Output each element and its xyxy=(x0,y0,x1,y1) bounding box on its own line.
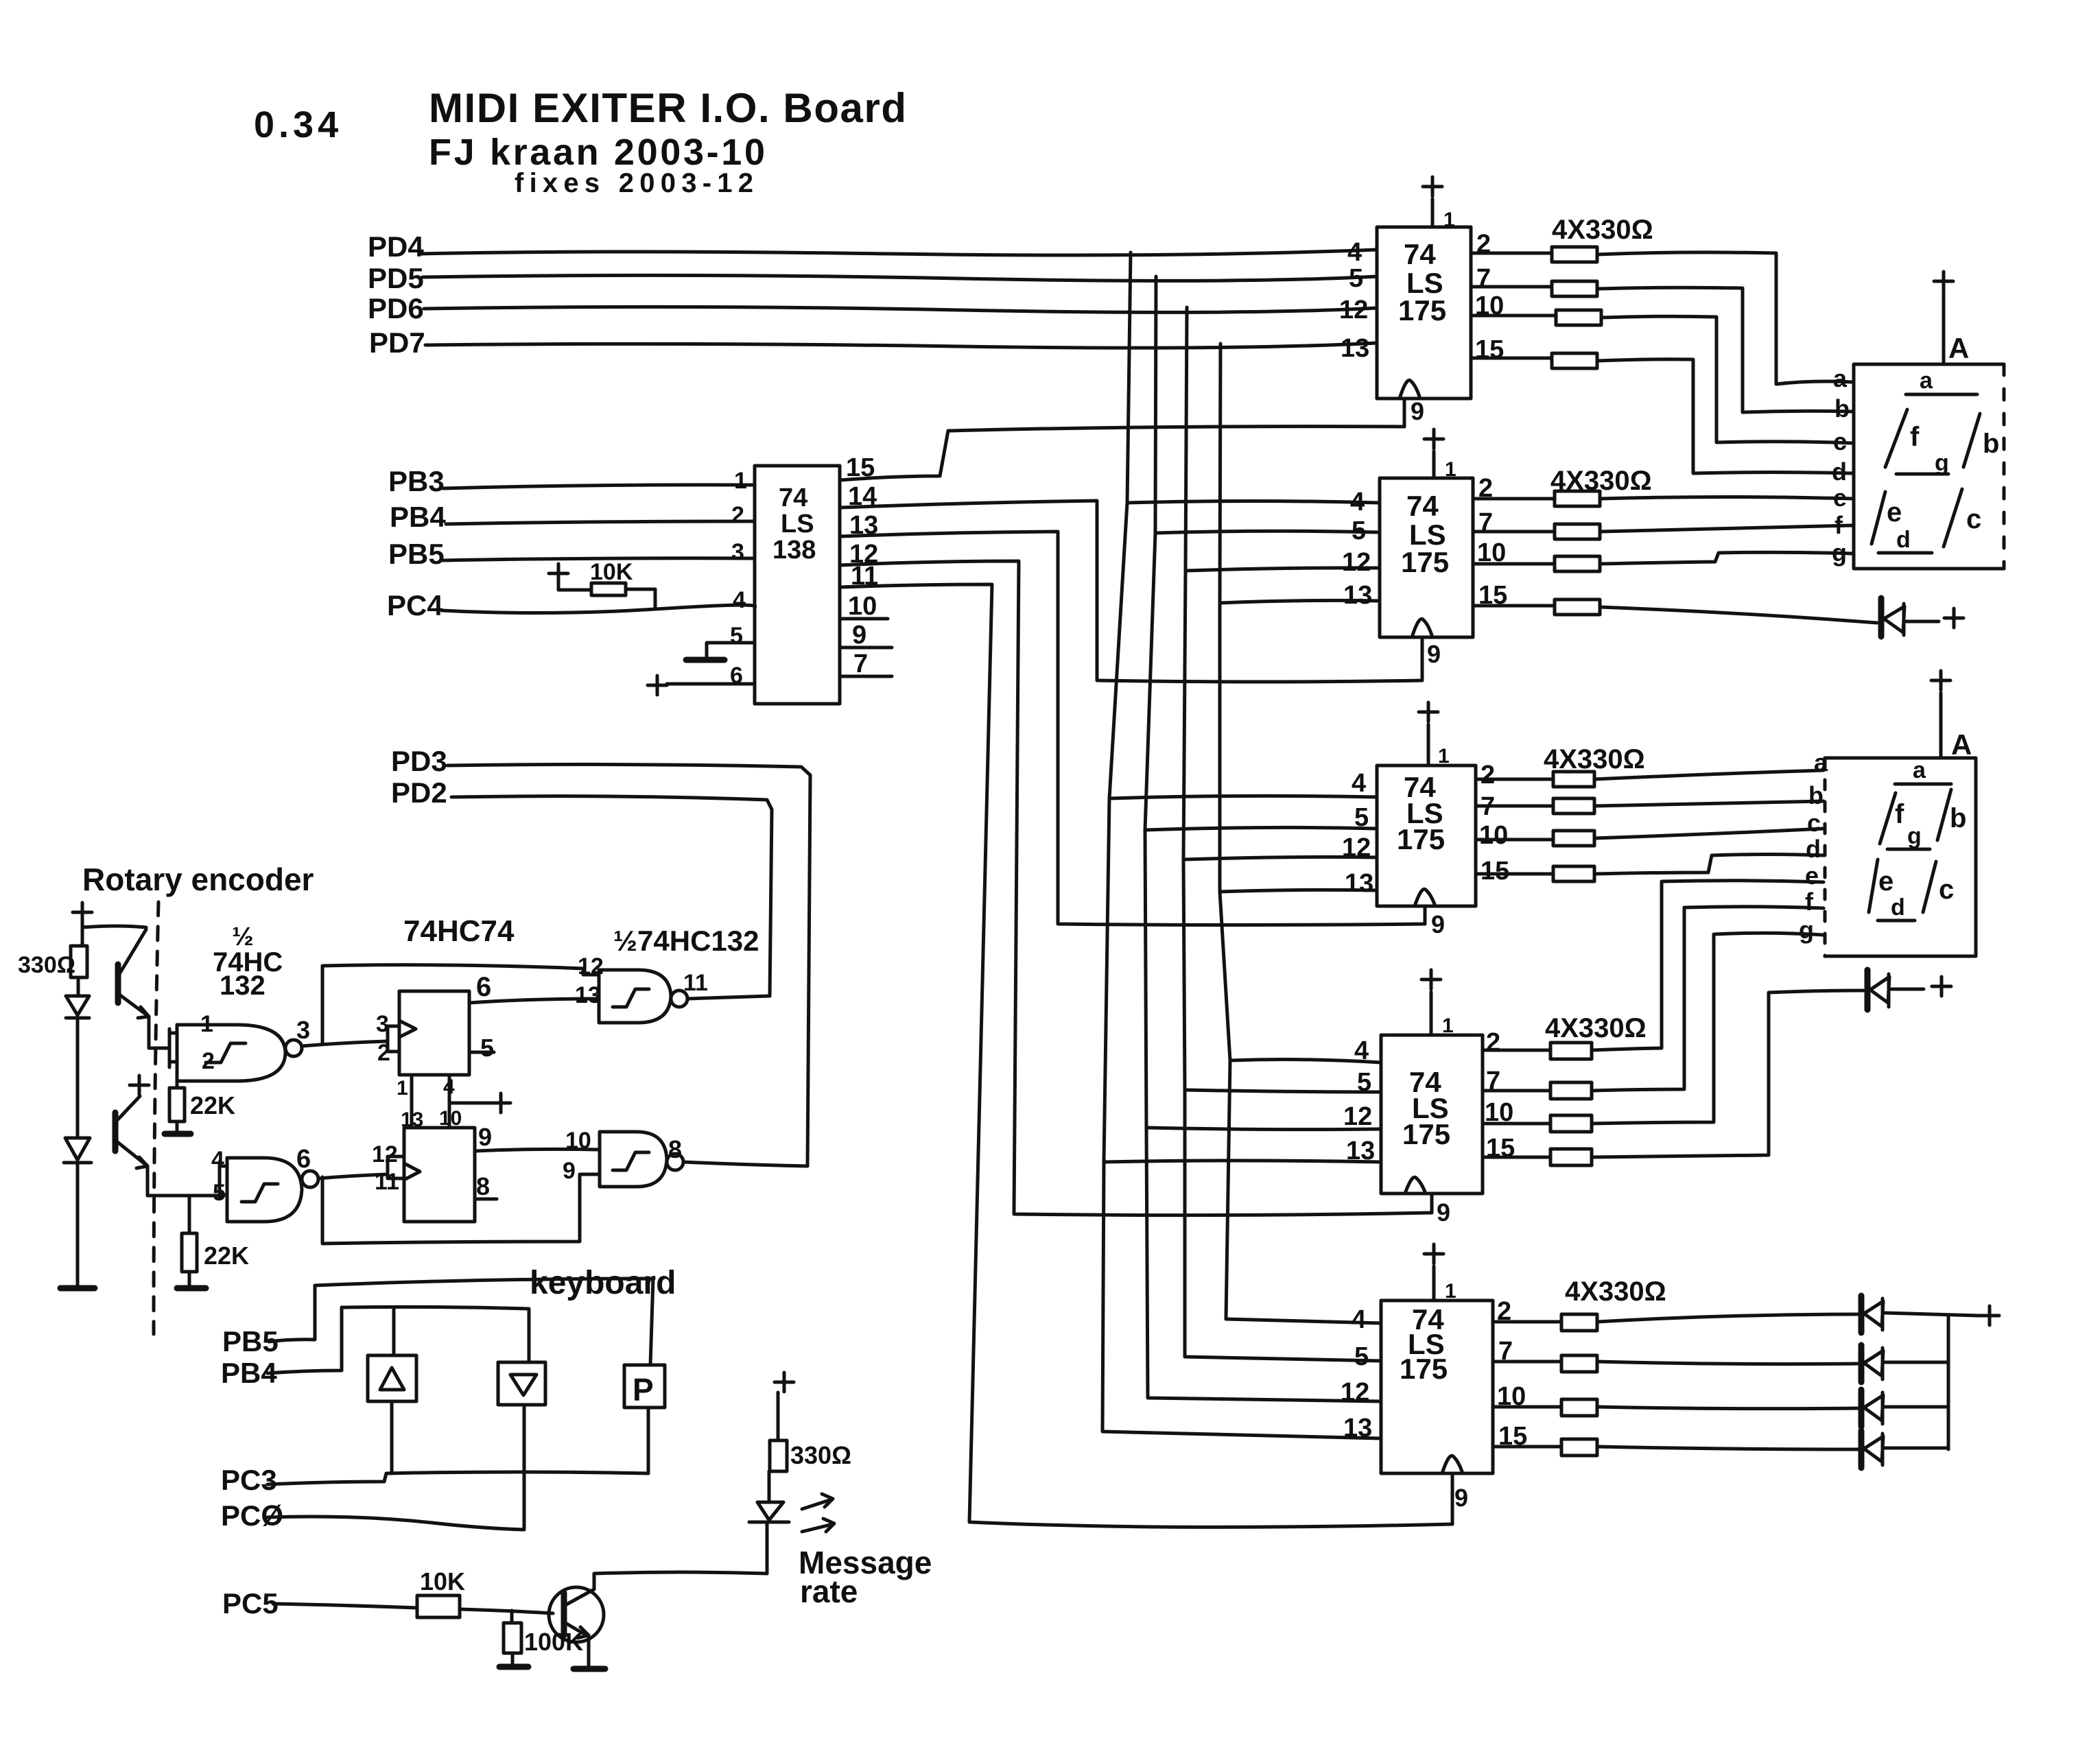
svg-text:e: e xyxy=(1878,866,1893,897)
svg-text:12: 12 xyxy=(1339,296,1368,324)
arrow light 2 xyxy=(802,1519,834,1532)
IC U6 74LS175 #5 xyxy=(1381,1301,1493,1473)
svg-text:2: 2 xyxy=(1480,761,1495,790)
LED LED3 message rate xyxy=(766,1524,769,1574)
wire tap C to U5 pin5 xyxy=(1185,1090,1381,1092)
wire U5 pin10 to R4c xyxy=(1483,1122,1550,1126)
power + at U1 pin6 xyxy=(648,676,667,695)
svg-text:PD6: PD6 xyxy=(368,292,424,324)
resistor R5d xyxy=(1561,1439,1597,1456)
svg-text:9: 9 xyxy=(1454,1484,1468,1512)
wire + to R6 xyxy=(558,583,591,590)
wire R4b to display2 f xyxy=(1592,907,1824,1091)
resistor R1a xyxy=(1552,247,1597,262)
svg-text:a: a xyxy=(1913,757,1926,783)
svg-text:5: 5 xyxy=(730,623,743,649)
svg-text:1: 1 xyxy=(1445,1280,1456,1303)
wire R6 to PC4 net xyxy=(626,589,655,609)
wire U6 pin2 to R5a xyxy=(1493,1320,1561,1324)
wire R4a to display2 e xyxy=(1592,881,1824,1050)
wire diode bus vertical xyxy=(1947,1315,1950,1449)
wire U2 pin9 stub xyxy=(1403,399,1406,427)
svg-text:10: 10 xyxy=(565,1128,591,1154)
svg-text:PD5: PD5 xyxy=(368,262,424,294)
resistor R3a xyxy=(1553,772,1594,787)
svg-text:11: 11 xyxy=(683,970,708,996)
resistor R3b xyxy=(1553,798,1594,814)
wire PB3 to U1 pin1 xyxy=(443,485,755,488)
gate G2 input bracket xyxy=(220,1162,227,1198)
svg-text:175: 175 xyxy=(1402,1118,1450,1150)
svg-text:d: d xyxy=(1896,527,1911,553)
svg-text:1: 1 xyxy=(1445,458,1456,481)
svg-text:FJ kraan 2003-10: FJ kraan 2003-10 xyxy=(429,132,765,173)
svg-text:12: 12 xyxy=(1342,833,1371,862)
ground Q3 xyxy=(574,1666,605,1672)
wire U6 pin15 to R5d xyxy=(1493,1445,1561,1449)
wire tap B to U4 pin5 xyxy=(1145,827,1377,830)
svg-text:7: 7 xyxy=(853,650,868,678)
svg-text:0.34: 0.34 xyxy=(254,104,342,145)
7-segment display DISP1 xyxy=(1854,364,2004,569)
wire U3 pin9 stub xyxy=(1421,637,1424,680)
resistor R2a xyxy=(1555,491,1600,506)
wire PD5 to U2 pin5 xyxy=(423,275,1377,281)
svg-text:d: d xyxy=(1832,458,1847,486)
svg-text:8: 8 xyxy=(668,1135,682,1163)
clock caret U5 xyxy=(1405,1177,1426,1194)
svg-text:12: 12 xyxy=(578,953,604,980)
svg-text:g: g xyxy=(1935,450,1949,476)
svg-text:12: 12 xyxy=(1342,548,1371,577)
svg-text:1: 1 xyxy=(734,468,747,494)
svg-text:c: c xyxy=(1807,809,1821,837)
IC U1 74LS138 xyxy=(755,466,840,704)
svg-text:c: c xyxy=(1939,875,1954,905)
wire G2 out to FF2 inputs xyxy=(318,1174,388,1178)
wire R3b to display2 b xyxy=(1594,801,1824,806)
stub FF2 pin8 xyxy=(475,1198,497,1201)
transistor Q1 (photo) xyxy=(115,964,121,1003)
svg-text:5: 5 xyxy=(1354,1342,1369,1371)
ground R9 xyxy=(177,1285,206,1292)
wire U6 pin10 to R5c xyxy=(1493,1405,1561,1409)
wire R12 to + xyxy=(777,1392,780,1440)
segment c DISP1 xyxy=(1944,489,1962,547)
wire D6 to bus xyxy=(1885,1447,1948,1450)
7-segment display DISP2 xyxy=(1825,758,1976,956)
power + above DISP2 xyxy=(1931,671,1950,758)
wire tap B to U5 pin12 xyxy=(1146,1128,1381,1130)
wire U1 pin5 to ground xyxy=(707,643,755,656)
svg-text:175: 175 xyxy=(1397,823,1445,855)
svg-text:4: 4 xyxy=(1350,488,1365,517)
svg-text:4X330Ω: 4X330Ω xyxy=(1552,215,1653,245)
wire U6 pin9 stub xyxy=(1451,1473,1454,1524)
clock mark FF2 xyxy=(404,1163,420,1180)
svg-text:2: 2 xyxy=(731,502,744,528)
svg-text:4: 4 xyxy=(1354,1036,1369,1065)
segment e DISP2 xyxy=(1869,859,1878,912)
segment c DISP2 xyxy=(1923,862,1936,912)
wire rail to SW1 xyxy=(392,1307,396,1355)
IC U5 74LS175 #4 xyxy=(1381,1035,1483,1194)
power + for R6 pullup xyxy=(549,564,568,583)
wire tap C to U4 pin12 xyxy=(1183,857,1377,859)
svg-text:15: 15 xyxy=(1480,857,1509,886)
svg-text:PD2: PD2 xyxy=(391,776,447,809)
svg-text:g: g xyxy=(1799,916,1814,944)
wire PB5 to U1 pin3 xyxy=(443,558,755,560)
wire + to U1 pin6 xyxy=(667,682,755,686)
resistor R4d xyxy=(1550,1149,1592,1165)
wire U1 pin11 to U6 pin9 (clock) xyxy=(840,584,1452,1527)
svg-text:13: 13 xyxy=(575,982,601,1008)
resistor R5a xyxy=(1561,1314,1597,1331)
wire G3 out to PD2 vertical xyxy=(687,996,770,999)
wire U5 pin7 to R4b xyxy=(1483,1089,1550,1093)
transistor Q2 (photo) xyxy=(113,1113,119,1151)
wire PD2 down to gate output 11 xyxy=(451,796,772,996)
svg-text:6: 6 xyxy=(296,1145,311,1174)
resistor R11 100K xyxy=(510,1611,514,1623)
segment b DISP2 xyxy=(1937,790,1951,840)
svg-text:4: 4 xyxy=(1352,769,1366,798)
svg-text:3: 3 xyxy=(296,1016,310,1044)
resistor R1c xyxy=(1556,310,1601,325)
nand gate G1 xyxy=(177,1025,285,1081)
svg-text:e: e xyxy=(1805,862,1819,890)
wire PD3 down to gate output 8 xyxy=(447,764,810,1166)
wire PB4 riser xyxy=(268,1307,342,1373)
segment a bar DISP2 xyxy=(1895,783,1951,786)
LED LED1 xyxy=(66,996,89,1015)
power + U2 pin1 xyxy=(1423,177,1442,227)
svg-text:f: f xyxy=(1895,799,1904,829)
wire PD5 vertical bus B xyxy=(1145,276,1381,1401)
gate G1 input bracket xyxy=(169,1029,177,1067)
svg-text:e: e xyxy=(1833,484,1847,512)
svg-text:½74HC132: ½74HC132 xyxy=(613,925,759,957)
FF1 input bracket xyxy=(388,1026,399,1052)
svg-text:9: 9 xyxy=(1431,910,1445,938)
segment d bar DISP2 xyxy=(1878,919,1915,923)
IC U4 74LS175 #3 xyxy=(1377,765,1476,906)
ground R8 xyxy=(165,1131,191,1137)
switch SW2 down xyxy=(498,1362,545,1405)
wire R2a to display1 e xyxy=(1600,497,1852,499)
wire R2d to diode D1 xyxy=(1600,607,1877,623)
wire tap D to U5 pin4 xyxy=(1230,1060,1381,1063)
wire R3c to display2 c xyxy=(1594,829,1824,838)
wire Q2 emitter to gate G2 input xyxy=(148,1194,220,1198)
power + LED3 xyxy=(775,1373,794,1392)
segment f DISP1 xyxy=(1885,409,1907,467)
resistor R5c xyxy=(1561,1399,1597,1416)
stub U1 pin7 xyxy=(840,675,892,678)
wire keyboard top rail xyxy=(315,1279,653,1365)
wire U4 pin2 to R3a xyxy=(1476,778,1553,781)
svg-text:d: d xyxy=(1891,894,1905,921)
ground at U1 pin5 xyxy=(686,657,724,663)
wire R1d to display1 d xyxy=(1597,359,1852,473)
switch SW3 P xyxy=(624,1365,665,1408)
wire Q3 emitter to ground xyxy=(587,1637,591,1665)
svg-text:13: 13 xyxy=(1346,1137,1375,1165)
svg-text:132: 132 xyxy=(220,971,266,1001)
svg-text:A: A xyxy=(1948,332,1969,364)
wire Q3 collector to LED3 xyxy=(594,1572,767,1589)
ground encoder xyxy=(60,1285,95,1292)
svg-text:PC5: PC5 xyxy=(222,1587,279,1619)
wire U3 pin2 to R2a xyxy=(1473,497,1555,501)
wire D1 to + xyxy=(1906,620,1939,624)
wire U2 pin10 to R1c xyxy=(1471,314,1556,318)
wire D3 to + xyxy=(1885,1313,1979,1316)
wire PC4 to U1 pin4 xyxy=(442,605,755,613)
svg-text:c: c xyxy=(1966,504,1981,534)
svg-text:2: 2 xyxy=(1486,1028,1500,1057)
svg-text:a: a xyxy=(1833,364,1848,392)
svg-text:f: f xyxy=(1805,888,1814,916)
wire U5 pin9 stub xyxy=(1430,1194,1434,1213)
resistor R5b xyxy=(1561,1355,1597,1372)
wire R2b to display1 f xyxy=(1600,525,1852,532)
wire R10 to Q3 base xyxy=(460,1609,553,1613)
svg-text:74: 74 xyxy=(1406,490,1439,522)
LED LED2 xyxy=(65,1138,90,1160)
svg-text:1: 1 xyxy=(1438,745,1450,768)
power + U5 pin1 xyxy=(1421,970,1441,1035)
wire U1 pin14 to U3 pin9 (clock) xyxy=(840,501,1422,682)
svg-text:74HC74: 74HC74 xyxy=(403,914,515,948)
svg-text:rate: rate xyxy=(800,1574,858,1609)
power + after D2 xyxy=(1932,977,1951,996)
svg-text:b: b xyxy=(1950,803,1966,833)
segment g bar DISP2 xyxy=(1887,848,1930,851)
svg-text:1: 1 xyxy=(1442,1014,1454,1037)
wire PB5 riser xyxy=(269,1285,315,1342)
wire tap A to U5 pin13 xyxy=(1104,1161,1381,1162)
svg-text:b: b xyxy=(1808,781,1824,809)
wire G2 out down to G4 pin9 xyxy=(322,1174,600,1244)
svg-text:d: d xyxy=(1806,835,1821,863)
wire PC5 to R10 xyxy=(273,1604,417,1608)
wire R1c to display1 c xyxy=(1601,316,1852,443)
wire R5c to diode D5 xyxy=(1597,1407,1859,1409)
wire keyboard second rail xyxy=(342,1307,529,1362)
diode D2 xyxy=(1865,970,1871,1010)
wire U2 pin15 to R1d xyxy=(1471,357,1552,360)
power + U3 pin1 xyxy=(1424,429,1443,478)
svg-text:10: 10 xyxy=(1479,821,1508,850)
segment f DISP2 xyxy=(1880,793,1896,844)
wire R1b to display1 b xyxy=(1597,287,1852,412)
wire R7 to LED1 xyxy=(77,977,80,996)
wire U3 pin10 to R2c xyxy=(1473,562,1555,566)
svg-text:13: 13 xyxy=(1343,1414,1372,1443)
svg-text:1: 1 xyxy=(1443,209,1455,231)
resistor R1b xyxy=(1552,281,1597,296)
svg-text:8: 8 xyxy=(476,1172,490,1200)
svg-text:b: b xyxy=(1983,429,1999,459)
wire G1 out up to G3 pin12 xyxy=(322,965,599,1044)
wire U2 pin7 to R1b xyxy=(1471,285,1552,289)
clock caret U3 xyxy=(1412,619,1432,637)
wire SW2 to PC0 rail xyxy=(523,1405,526,1528)
wire tap D to U4 pin13 xyxy=(1220,890,1377,892)
IC U2 74LS175 #1 xyxy=(1377,227,1471,399)
nand gate G2 xyxy=(227,1158,302,1222)
svg-text:9: 9 xyxy=(1411,397,1424,425)
svg-text:4: 4 xyxy=(733,587,746,613)
power + top right xyxy=(1980,1306,1999,1325)
svg-text:175: 175 xyxy=(1401,546,1449,578)
segment b DISP1 xyxy=(1963,414,1980,467)
svg-text:g: g xyxy=(1907,823,1922,849)
svg-text:13: 13 xyxy=(1341,334,1369,363)
wire U3 pin7 to R2b xyxy=(1473,530,1555,534)
resistor R7 330 xyxy=(71,946,87,977)
wire R3a to display2 a xyxy=(1594,770,1824,779)
wire R4d to diode D2 xyxy=(1592,990,1863,1157)
svg-text:9: 9 xyxy=(852,621,866,650)
clock mark FF1 xyxy=(399,1021,416,1037)
svg-text:c: c xyxy=(1833,427,1847,455)
svg-text:9: 9 xyxy=(1427,640,1441,668)
wire U4 pin15 to R3d xyxy=(1476,872,1553,876)
svg-text:4X330Ω: 4X330Ω xyxy=(1545,1013,1647,1043)
power + top of encoder xyxy=(73,903,92,946)
segment d bar DISP1 xyxy=(1878,551,1932,555)
diode D6 xyxy=(1859,1431,1865,1468)
resistor R4b xyxy=(1550,1082,1592,1099)
wire U5 pin2 to R4a xyxy=(1483,1049,1550,1052)
wire PC3 xyxy=(268,1472,648,1484)
wire D4 to bus xyxy=(1885,1361,1948,1364)
nand gate G4 xyxy=(600,1132,667,1187)
resistor R8 22K xyxy=(176,1049,179,1088)
dashed separator xyxy=(154,902,158,1334)
power + above DISP1 xyxy=(1934,272,1953,364)
svg-text:100K: 100K xyxy=(524,1628,583,1656)
svg-text:PB4: PB4 xyxy=(390,501,446,533)
svg-text:9: 9 xyxy=(478,1123,492,1151)
wire U4 pin10 to R3c xyxy=(1476,838,1553,842)
wire tap A to U3 pin4 xyxy=(1127,501,1380,503)
svg-text:9: 9 xyxy=(563,1158,576,1184)
wire U6 pin7 to R5b xyxy=(1493,1360,1561,1364)
svg-text:5: 5 xyxy=(480,1034,494,1062)
svg-text:PD4: PD4 xyxy=(368,230,424,263)
svg-text:f: f xyxy=(1834,511,1843,539)
svg-text:5: 5 xyxy=(1352,517,1366,545)
wire tap B to U3 pin5 xyxy=(1155,531,1380,533)
wire PD6 to U2 pin12 xyxy=(424,307,1377,312)
svg-text:MIDI EXITER I.O. Board: MIDI EXITER I.O. Board xyxy=(429,85,909,131)
svg-text:5: 5 xyxy=(1354,803,1369,832)
resistor R1d xyxy=(1552,353,1597,368)
IC FF2 74HC74 half xyxy=(404,1128,475,1222)
wire FF1 pin1 to FF2 pin13 xyxy=(410,1075,414,1128)
wire SW3 to PC3 rail xyxy=(647,1408,650,1473)
transistor Q3 xyxy=(549,1587,604,1642)
arrow light 1 xyxy=(802,1494,833,1509)
svg-text:3: 3 xyxy=(731,539,744,565)
svg-text:74: 74 xyxy=(1404,238,1436,270)
wire R2c to display1 g xyxy=(1600,552,1852,564)
svg-text:330Ω: 330Ω xyxy=(790,1441,851,1469)
ground R11 xyxy=(499,1664,528,1670)
svg-text:g: g xyxy=(1832,538,1847,567)
svg-text:9: 9 xyxy=(1437,1198,1450,1226)
wire tap C to U3 pin12 xyxy=(1185,568,1380,571)
svg-text:LS: LS xyxy=(781,510,814,538)
wire D5 to bus xyxy=(1885,1405,1948,1409)
stub U1 pin10 xyxy=(840,617,888,621)
wire tap A to U4 pin4 xyxy=(1109,796,1377,798)
IC U3 74LS175 #2 xyxy=(1380,478,1473,637)
wire + to Q1 collector xyxy=(82,926,146,927)
svg-text:PB5: PB5 xyxy=(388,538,445,570)
svg-text:f: f xyxy=(1910,422,1920,452)
svg-text:PC3: PC3 xyxy=(221,1464,277,1496)
svg-text:4X330Ω: 4X330Ω xyxy=(1565,1277,1666,1307)
svg-text:10K: 10K xyxy=(590,559,633,585)
power + U6 pin1 xyxy=(1424,1244,1443,1301)
svg-text:22K: 22K xyxy=(190,1091,235,1119)
wire U1 pin13 to U4 pin9 (clock) xyxy=(840,532,1425,925)
wire LED2 to ground xyxy=(76,1163,80,1287)
svg-text:12: 12 xyxy=(1341,1378,1369,1407)
svg-text:22K: 22K xyxy=(204,1242,249,1270)
FF2 input bracket xyxy=(388,1156,404,1178)
svg-text:7: 7 xyxy=(1476,264,1491,293)
svg-text:b: b xyxy=(1834,394,1850,423)
wire G4 out to PD3 vertical xyxy=(683,1162,807,1166)
resistor R2c xyxy=(1555,556,1600,571)
svg-text:5: 5 xyxy=(1349,264,1363,293)
diode D5 xyxy=(1859,1390,1865,1427)
wire PC0 xyxy=(268,1517,524,1530)
wire R5b to diode D4 xyxy=(1597,1362,1859,1364)
resistor R3c xyxy=(1553,831,1594,846)
wire PD6 vertical bus C xyxy=(1183,307,1381,1361)
svg-text:12: 12 xyxy=(372,1141,398,1167)
IC FF1 74HC74 half xyxy=(399,991,469,1075)
wire R5a to diode D3 xyxy=(1597,1314,1859,1322)
wire U5 pin15 to R4d xyxy=(1483,1156,1550,1159)
wire tap D to U3 pin13 xyxy=(1220,600,1380,603)
resistor R3d xyxy=(1553,866,1594,881)
segment e DISP1 xyxy=(1872,492,1885,544)
nand gate G3 xyxy=(599,970,671,1023)
wire Q1 emitter to gate G1 input xyxy=(149,1047,169,1050)
diode D3 xyxy=(1859,1296,1865,1333)
wire FF1 pin4 to FF2 pin10 xyxy=(448,1075,451,1128)
wire PB4 to U1 pin2 xyxy=(446,521,755,524)
stub U1 pin9 xyxy=(840,646,892,650)
svg-text:PC4: PC4 xyxy=(387,589,443,621)
svg-text:4: 4 xyxy=(443,1076,455,1098)
wire LED1 to LED2 xyxy=(76,1018,80,1138)
svg-text:2: 2 xyxy=(202,1048,215,1074)
svg-text:1: 1 xyxy=(397,1077,408,1100)
resistor R12 330 xyxy=(770,1440,787,1471)
svg-text:a: a xyxy=(1920,368,1933,394)
clock caret U6 xyxy=(1442,1456,1463,1473)
svg-text:175: 175 xyxy=(1398,294,1446,327)
